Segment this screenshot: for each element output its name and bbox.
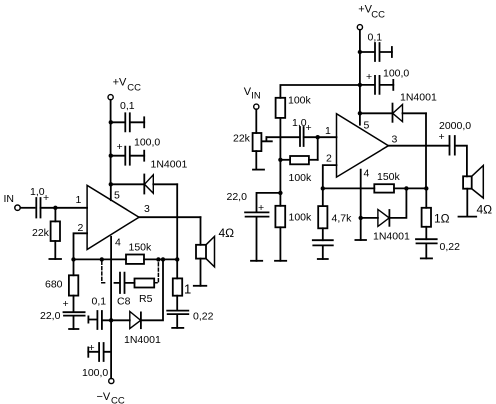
capacitor 22,0 label	[40, 298, 69, 322]
svg-text:1Ω: 1Ω	[434, 212, 450, 226]
wire output to speaker	[200, 217, 202, 245]
wire dashed R5 branch	[154, 262, 158, 283]
pin 2 label right	[326, 153, 332, 165]
wire vcc to diode right	[360, 112, 393, 114]
wire VIN to pot	[255, 109, 257, 133]
capacitor 100,0 label right	[366, 68, 409, 84]
capacitor 100,0 top-left	[111, 147, 144, 165]
ground under 0,22 right	[421, 257, 432, 259]
wiper arm	[261, 137, 271, 141]
svg-text:C8: C8	[117, 296, 131, 308]
potentiometer 22k	[253, 133, 262, 151]
node dot vcc/0,1 right	[358, 50, 362, 54]
wire pin4 down to -vcc	[110, 237, 112, 379]
capacitor 100,0 right	[360, 76, 393, 94]
capacitor 1,0 label right	[292, 117, 312, 134]
capacitor 0,1 label right	[368, 32, 383, 44]
svg-text:3: 3	[392, 134, 398, 146]
ground under 22,0 right	[251, 260, 262, 262]
svg-text:100,0: 100,0	[383, 68, 409, 80]
svg-text:4: 4	[364, 168, 370, 180]
svg-text:1N4001: 1N4001	[151, 159, 188, 171]
wire feedback rail	[74, 258, 127, 260]
svg-text:0,1: 0,1	[368, 32, 383, 44]
capacitor 1,0 input	[36, 198, 40, 218]
ground tick 0,1 right	[391, 47, 393, 57]
node dot vcc/0,1	[109, 120, 113, 124]
wire feedback rail right	[323, 187, 427, 189]
svg-text:22,0: 22,0	[40, 310, 61, 322]
svg-text:+: +	[366, 71, 372, 83]
resistor 680 label	[45, 279, 63, 291]
speaker 4ohm label left	[219, 226, 235, 240]
svg-text:100,0: 100,0	[134, 137, 160, 149]
wire pin5 to vcc rail	[110, 184, 112, 200]
svg-text:150k: 150k	[377, 171, 401, 183]
pin 4 label	[115, 237, 121, 249]
ground tick 0,1 bottom-left	[87, 316, 89, 322]
wire drop to feedback rail	[176, 184, 178, 259]
terminal IN circle	[15, 205, 20, 210]
svg-text:+: +	[306, 122, 312, 134]
ground under 0,22 left	[172, 327, 183, 329]
svg-text:IN: IN	[251, 91, 261, 102]
resistor 4,7k label	[332, 213, 353, 225]
svg-text:0,22: 0,22	[193, 311, 214, 323]
node dot rail zobel right	[424, 186, 428, 190]
wire cap to pin1	[304, 136, 337, 138]
wire cap to speaker right	[455, 146, 467, 177]
resistor 22k	[54, 208, 56, 222]
svg-text:+: +	[439, 131, 445, 143]
resistor 22k label	[32, 227, 50, 239]
svg-text:22k: 22k	[32, 227, 50, 239]
terminal VIN circle	[254, 104, 259, 109]
pin 2 label	[78, 222, 84, 234]
svg-text:4Ω: 4Ω	[219, 226, 235, 240]
wire C to opamp pin1	[41, 207, 88, 209]
wire drop to rail right	[425, 113, 427, 188]
resistor 100k bottom	[279, 193, 281, 206]
svg-text:3: 3	[144, 203, 150, 215]
node dot vcc/diode right	[358, 111, 362, 115]
node dot rail pin2	[71, 257, 75, 261]
svg-text:CC: CC	[127, 83, 141, 94]
node dot vcc/100,0 right	[358, 83, 362, 87]
wire bias to 22,0	[257, 193, 281, 212]
wire diode to right drop	[153, 183, 177, 185]
svg-text:IN: IN	[4, 193, 15, 205]
resistor R5 label	[139, 293, 153, 305]
resistor 680	[73, 259, 75, 275]
svg-text:100k: 100k	[288, 95, 312, 107]
svg-text:R5: R5	[139, 293, 153, 305]
capacitor 2000,0	[450, 136, 455, 155]
ground under 100k bottom	[275, 260, 286, 262]
speaker 4ohm label right	[477, 203, 493, 217]
capacitor 22,0 label right	[227, 191, 265, 214]
svg-text:+: +	[117, 141, 123, 153]
pin 3 label	[144, 203, 150, 215]
diode 1N4001 bottom-right	[378, 210, 389, 227]
capacitor 0,1 label top-left	[120, 100, 135, 112]
resistor 150k label left	[129, 242, 153, 254]
svg-text:2: 2	[78, 222, 84, 234]
node dot vcc/diode	[109, 182, 113, 186]
speaker right	[463, 176, 472, 188]
svg-text:5: 5	[364, 120, 370, 132]
resistor R5	[135, 279, 155, 288]
capacitor 100,0 label top-left	[117, 137, 161, 154]
wire pin4 to diode	[361, 217, 378, 219]
ground under speaker left	[194, 285, 207, 287]
capacitor 0,22 right	[416, 239, 437, 258]
node dot rail R5 branch	[156, 257, 160, 261]
svg-text:+: +	[63, 298, 69, 310]
svg-text:4Ω: 4Ω	[477, 203, 493, 217]
node dot pin4/diode right	[359, 216, 363, 220]
speaker left	[196, 245, 206, 259]
svg-text:4: 4	[115, 237, 121, 249]
resistor 150k left	[126, 255, 144, 264]
ground tick 100,0 top-left	[143, 151, 145, 161]
resistor 100k mid label	[289, 172, 313, 184]
pin 5 label right	[364, 120, 370, 132]
resistor 100k top label	[288, 95, 312, 107]
capacitor 2000,0 label	[439, 120, 472, 143]
diode 1N4001 label top-right	[400, 92, 437, 104]
resistor 1ohm label	[434, 212, 450, 226]
wire pin2 elbow	[74, 233, 88, 259]
terminal -VCC circle	[109, 378, 114, 383]
resistor 150k right	[374, 184, 394, 192]
svg-text:22k: 22k	[233, 133, 251, 145]
ground under pot	[253, 169, 264, 171]
svg-text:CC: CC	[371, 10, 385, 21]
node dot -vcc/0,1/diode	[109, 318, 113, 322]
node +VCC label right	[358, 4, 385, 21]
wire rail right of 150k	[144, 258, 177, 260]
resistor 100k mid	[280, 159, 290, 161]
capacitor 0,22 label left	[193, 311, 214, 323]
svg-text:100k: 100k	[289, 212, 313, 224]
wire pin4 to ground	[360, 170, 362, 240]
resistor 100k top	[276, 98, 286, 118]
pin 4 label right	[364, 168, 370, 180]
capacitor 0,22 left	[167, 311, 188, 328]
svg-text:5: 5	[114, 190, 120, 202]
resistor 150k label right	[377, 171, 401, 183]
wire vcc to diode	[111, 183, 145, 185]
terminal +VCC circle right	[357, 25, 362, 30]
ground under speaker right	[459, 216, 477, 218]
svg-text:150k: 150k	[129, 242, 153, 254]
wire pin2 elbow right	[323, 165, 337, 188]
wire diode to rail riser right	[389, 188, 406, 218]
ground tick 100,0 bottom-left	[87, 347, 89, 356]
svg-text:0,1: 0,1	[120, 100, 135, 112]
wire speaker to ground	[200, 259, 202, 286]
capacitor 22,0	[64, 312, 85, 329]
ground under 22k	[49, 258, 61, 260]
capacitor 22,0 right	[245, 212, 268, 260]
diode 1N4001 top-left	[143, 175, 145, 194]
wire +VCC rail right	[359, 30, 361, 125]
capacitor 100,0 bottom-left	[88, 343, 111, 361]
svg-text:+: +	[43, 192, 49, 204]
diode 1N4001 bottom-left	[130, 312, 141, 329]
node +VCC label left	[113, 77, 142, 94]
capacitor 0,1 top-left	[111, 113, 144, 131]
node dot pin1 feedback	[316, 135, 320, 139]
node dot vcc/100,0	[109, 154, 113, 158]
ground tick 100,0 right	[392, 80, 394, 90]
capacitor C8	[115, 273, 135, 293]
diode 1N4001 top-right	[392, 104, 394, 122]
capacitor 0,1 label bottom-left	[92, 296, 107, 308]
ground tick 0,1 top-left	[143, 117, 145, 127]
capacitor 1,0 label	[30, 186, 49, 204]
capacitor 0,1 bottom-left	[88, 311, 111, 329]
svg-text:0,1: 0,1	[92, 296, 107, 308]
resistor 100k bottom label	[289, 212, 313, 224]
resistor 4,7k	[322, 188, 324, 206]
capacitor 1,0 right	[300, 127, 304, 146]
wire IN to C input	[21, 207, 35, 209]
wire diode to rail riser	[141, 259, 163, 320]
wire -vcc node to diode	[111, 319, 130, 321]
resistor 1 left	[176, 259, 178, 278]
wire +VCC rail down	[110, 100, 112, 185]
wire wiper to cap	[266, 136, 299, 138]
svg-text:CC: CC	[111, 396, 125, 404]
svg-text:−V: −V	[97, 391, 111, 403]
svg-text:100k: 100k	[289, 172, 313, 184]
node -VCC label	[97, 391, 125, 404]
wire diode to drop right	[403, 112, 427, 114]
wire output pin3	[139, 216, 201, 218]
resistor 1ohm	[425, 188, 427, 207]
wire bias line down	[279, 118, 281, 193]
capacitor 0,22 label right	[440, 241, 461, 253]
capacitor 100,0 label bottom-left	[82, 342, 108, 379]
capacitor C8 label	[117, 296, 131, 308]
diode 1N4001 label top-left	[151, 159, 188, 171]
ground under 4,7k cap	[318, 258, 328, 260]
svg-text:1N4001: 1N4001	[400, 92, 437, 104]
wire dashed C8 branch	[102, 262, 106, 283]
node dot rail diode right	[404, 186, 408, 190]
pin 5 label	[114, 190, 120, 202]
svg-text:100,0: 100,0	[82, 367, 108, 379]
node dot bias bottom	[278, 191, 282, 195]
ground under pin4	[355, 239, 366, 241]
wire vcc to 100k top	[280, 85, 360, 98]
pin 3 label right	[392, 134, 398, 146]
terminal +VCC circle left	[108, 95, 113, 100]
capacitor 0,1 right	[360, 43, 392, 61]
svg-text:680: 680	[45, 279, 63, 291]
svg-text:0,22: 0,22	[440, 241, 461, 253]
svg-text:22,0: 22,0	[227, 191, 248, 203]
node junction input/22k	[53, 206, 57, 210]
op-amp U2 triangle	[337, 114, 389, 177]
diode 1N4001 label bottom-left	[124, 334, 161, 346]
wire speaker to ground right	[466, 189, 468, 217]
node dot rail diode branch	[161, 257, 165, 261]
svg-text:1: 1	[325, 125, 331, 137]
potentiometer 22k label	[233, 133, 251, 145]
svg-text:1N4001: 1N4001	[124, 334, 161, 346]
wire output right	[388, 145, 449, 147]
svg-text:2: 2	[326, 153, 332, 165]
node dot rail C8 branch	[100, 257, 104, 261]
ground under 22,0	[69, 328, 78, 330]
resistor 1 label left	[184, 282, 191, 297]
node dot bias/100k-h	[278, 158, 282, 162]
wire 100k-h riser to pin1	[317, 137, 319, 160]
svg-text:1: 1	[184, 282, 191, 297]
svg-text:1N4001: 1N4001	[373, 231, 410, 243]
node dot rail right end	[175, 257, 179, 261]
svg-text:1: 1	[76, 194, 82, 206]
diode 1N4001 label bottom-right	[373, 231, 410, 243]
pin 1 label right	[325, 125, 331, 137]
svg-text:4,7k: 4,7k	[332, 213, 353, 225]
pin 1 label	[76, 194, 82, 206]
node dot rail pin2 right	[321, 186, 325, 190]
capacitor under 4,7k	[313, 240, 333, 259]
node VIN label	[244, 86, 261, 102]
node IN label	[4, 193, 15, 205]
op-amp U1 triangle	[87, 185, 139, 249]
svg-text:+V: +V	[113, 77, 127, 89]
